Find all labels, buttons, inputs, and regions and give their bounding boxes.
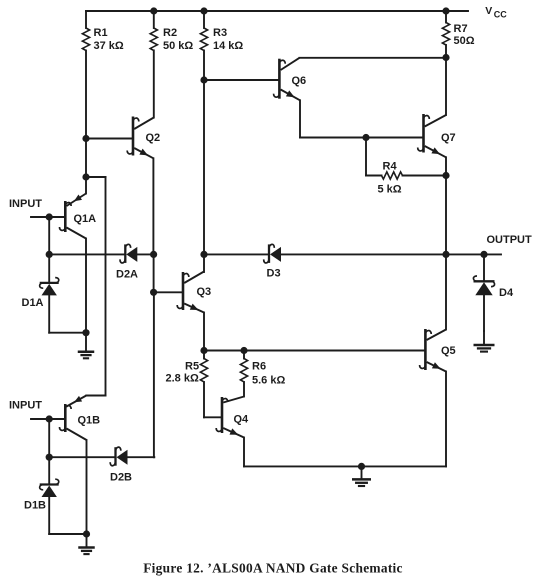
- junction output node: [442, 251, 449, 258]
- junction rail-R2: [150, 7, 157, 14]
- wire D2A right: [137, 253, 153, 255]
- wire Q3 emitter diagonal: [184, 304, 204, 313]
- junction D4 tap: [480, 251, 487, 258]
- wire R2 to Q2 collector: [153, 51, 155, 118]
- junction R3/Q6 base: [200, 76, 207, 83]
- wire D2A left: [49, 253, 125, 255]
- resistor R1: [82, 28, 89, 50]
- diode D2A (Schottky): [124, 244, 126, 263]
- junction R4 left node: [362, 134, 369, 141]
- svg-text:D2A: D2A: [116, 269, 138, 281]
- wire Q5 collector diagonal: [427, 330, 446, 341]
- svg-text:V: V: [485, 5, 492, 17]
- svg-text:R2: R2: [163, 27, 177, 39]
- wire D4 bottom: [483, 295, 485, 331]
- arrow Q7 emitter: [431, 147, 440, 154]
- junction Q3 base node: [150, 289, 157, 296]
- wire R5 to Q4 base: [203, 382, 205, 417]
- wire input A stub: [31, 216, 65, 218]
- svg-text:D3: D3: [267, 268, 281, 280]
- wire vertical to Q1B emitter: [105, 177, 107, 396]
- wire Q6 collector diagonal: [281, 58, 300, 70]
- svg-text:R5: R5: [185, 360, 199, 372]
- junction D1A/Q1A-collector ground: [82, 329, 89, 336]
- svg-text:R4: R4: [383, 161, 398, 173]
- junction D3 cathode node: [200, 251, 207, 258]
- svg-text:Q1A: Q1A: [74, 213, 97, 225]
- wire Q1A emitter diagonal: [67, 194, 87, 207]
- arrow Q4 emitter: [230, 428, 239, 434]
- wire Q3 base: [154, 291, 183, 293]
- wire input B node to D1B: [48, 457, 50, 484]
- junction ground bottom: [358, 463, 365, 470]
- junction D1B/Q1B-collector ground: [83, 530, 90, 537]
- wire R6 top lead: [243, 351, 245, 359]
- transistor Q2: [132, 117, 135, 156]
- wire R4 right lead: [403, 175, 447, 177]
- wire Q1B collector down: [86, 440, 88, 534]
- ground input B: [86, 534, 88, 547]
- wire Q4 emitter diagonal: [223, 428, 244, 438]
- transistor Q3: [182, 272, 185, 310]
- ground D4: [483, 331, 485, 344]
- wire Q4 emitter down: [243, 438, 245, 467]
- wire input A node to D1A: [48, 254, 50, 283]
- svg-text:R6: R6: [252, 360, 266, 372]
- resistor R7: [442, 23, 449, 45]
- wire Q1A collector diagonal: [67, 228, 87, 239]
- transistor Q4: [221, 397, 224, 433]
- svg-text:Figure 12. ’ALS00A NAND Gate S: Figure 12. ’ALS00A NAND Gate Schematic: [143, 561, 403, 576]
- wire Q7 emitter down to R4 node: [445, 157, 447, 175]
- ground bottom: [361, 466, 363, 478]
- wire to Q5 base: [244, 350, 425, 352]
- diode D1A (Schottky): [40, 282, 59, 284]
- wire Vcc to R2: [153, 11, 155, 28]
- diode D2B (Schottky): [114, 447, 116, 466]
- wire Q5 emitter down to ground rail: [445, 372, 447, 467]
- resistor R4: [382, 172, 403, 179]
- svg-text:D4: D4: [499, 287, 514, 299]
- wire input B node down to D1B node: [48, 419, 50, 457]
- wire D3 left: [204, 253, 269, 255]
- svg-text:D2B: D2B: [110, 472, 132, 484]
- svg-text:Q6: Q6: [292, 75, 307, 87]
- diode D1B (Schottky): [40, 483, 59, 485]
- arrow Q1A emitter: [74, 195, 82, 202]
- svg-text:D1B: D1B: [24, 500, 46, 512]
- wire D2B right: [128, 456, 155, 458]
- junction R6 top: [240, 347, 247, 354]
- svg-text:INPUT: INPUT: [9, 198, 42, 210]
- wire R5 top lead: [203, 351, 205, 359]
- wire D1A bottom: [48, 295, 50, 332]
- svg-text:R1: R1: [94, 27, 108, 39]
- transistor Q7: [422, 114, 425, 153]
- transistor Q6: [278, 59, 281, 99]
- wire Q7 collector diagonal: [425, 115, 446, 127]
- junction rail-R3: [200, 7, 207, 14]
- svg-text:50 kΩ: 50 kΩ: [163, 40, 193, 52]
- wire Q1B emitter horizontal: [86, 395, 105, 397]
- svg-text:2.8 kΩ: 2.8 kΩ: [166, 373, 199, 385]
- svg-text:R3: R3: [213, 27, 227, 39]
- arrow Q3 emitter: [190, 304, 199, 310]
- wire D3 right: [281, 253, 446, 255]
- junction D1A top node: [46, 251, 53, 258]
- svg-text:Q3: Q3: [197, 286, 212, 298]
- svg-text:5 kΩ: 5 kΩ: [378, 184, 402, 196]
- svg-text:5.6 kΩ: 5.6 kΩ: [252, 374, 285, 386]
- wire Q1B collector diagonal: [67, 429, 87, 441]
- wire R1 to Q2-base node: [85, 51, 87, 139]
- wire Q3 emitter down: [203, 313, 205, 351]
- wire Q7 emitter diagonal: [425, 146, 446, 157]
- svg-text:Q4: Q4: [234, 414, 250, 426]
- wire Q2 emitter: [134, 148, 153, 158]
- wire Q2 emitter down to D2A node: [152, 158, 154, 254]
- wire D2B left: [49, 456, 115, 458]
- wire Q6 base: [204, 79, 279, 81]
- svg-text:50Ω: 50Ω: [454, 35, 475, 47]
- wire down to D2B: [153, 292, 155, 457]
- wire input B stub: [31, 418, 65, 420]
- wire R3 node to D3 node: [203, 80, 205, 254]
- wire Vcc to R1: [85, 11, 87, 28]
- junction input B node: [46, 415, 53, 422]
- wire to Q1A emitter node: [85, 139, 87, 178]
- wire Q2 base: [86, 138, 133, 140]
- wire Q2 collector: [134, 118, 154, 130]
- wire R4 left vertical: [365, 138, 367, 176]
- wire R7 to Q6 collector node: [445, 45, 447, 58]
- svg-text:INPUT: INPUT: [9, 400, 42, 412]
- resistor R5: [200, 359, 207, 382]
- junction Q1A emitter node: [82, 173, 89, 180]
- arrow Q6 emitter: [286, 90, 295, 97]
- resistor R6: [240, 359, 247, 382]
- transistor Q1B (input pnp): [64, 404, 67, 432]
- junction R7/Q6 collector/Q7 collector: [442, 54, 449, 61]
- wire Q1A collector down: [85, 239, 87, 333]
- svg-text:Q7: Q7: [441, 132, 456, 144]
- svg-text:OUTPUT: OUTPUT: [487, 234, 533, 246]
- junction rail-R7: [442, 7, 449, 14]
- svg-text:R7: R7: [454, 23, 468, 35]
- diode D4 (Schottky): [474, 280, 495, 282]
- wire to Q3 base node: [153, 254, 155, 292]
- arrow Q5 emitter: [432, 362, 441, 369]
- wire Q3 emitter line to R6: [204, 350, 244, 352]
- wire Q4 collector diagonal: [223, 397, 244, 403]
- wire D2B up to Q2 emitter line: [153, 456, 155, 458]
- wire Q6 collector to R7 node: [300, 57, 447, 59]
- node Vcc rail: [86, 10, 468, 12]
- wire D4 top: [483, 254, 485, 281]
- junction R5 top: [200, 347, 207, 354]
- resistor R3: [200, 28, 207, 50]
- arrow Q1B emitter: [74, 396, 82, 402]
- wire D3 node to Q3 collector: [203, 254, 205, 272]
- transistor Q1A (input pnp): [64, 201, 67, 232]
- wire Q6 emitter to Q7 base: [300, 137, 424, 139]
- junction D2A anode node: [150, 251, 157, 258]
- wire Q5 collector up to output: [445, 254, 447, 329]
- wire ground rail bottom: [244, 465, 446, 467]
- svg-text:37 kΩ: 37 kΩ: [94, 40, 124, 52]
- wire Q3 collector diagonal: [184, 272, 204, 284]
- diode D3 (Schottky): [268, 244, 270, 263]
- wire Q1B emitter diagonal: [67, 396, 87, 407]
- wire output stub: [446, 253, 501, 255]
- junction D1B top node: [46, 454, 53, 461]
- resistor R2: [150, 28, 157, 50]
- transistor Q5: [424, 329, 427, 370]
- wire Vcc to R7: [445, 11, 447, 23]
- wire Q5 emitter diagonal: [427, 362, 446, 372]
- wire Q6 emitter down: [299, 100, 301, 137]
- wire Q1A emitter vertical: [85, 177, 87, 194]
- wire Q6 emitter diagonal: [281, 90, 300, 101]
- wire Vcc to R3: [203, 11, 205, 28]
- svg-text:Q1B: Q1B: [78, 415, 101, 427]
- wire Q7 emitter node to output node: [445, 176, 447, 255]
- wire R6 to Q4 collector: [243, 382, 245, 397]
- wire R4 left lead: [366, 175, 382, 177]
- wire Q7 collector up: [445, 58, 447, 116]
- junction R1/Q2 base: [82, 135, 89, 142]
- arrow Q2 emitter: [139, 149, 148, 156]
- wire D1B bottom: [48, 497, 50, 534]
- svg-text:Q2: Q2: [146, 132, 161, 144]
- junction input A node: [46, 213, 53, 220]
- svg-text:CC: CC: [494, 9, 507, 19]
- svg-text:D1A: D1A: [22, 297, 44, 309]
- svg-text:Q5: Q5: [441, 345, 456, 357]
- svg-text:14 kΩ: 14 kΩ: [213, 40, 243, 52]
- junction R4 right / Q7 emitter: [442, 172, 449, 179]
- wire emitter node to Q1B branch: [86, 176, 106, 178]
- wire R3 to Q6-base node: [203, 51, 205, 81]
- ground input A: [85, 333, 87, 351]
- wire input A node down to D1A node: [48, 217, 50, 254]
